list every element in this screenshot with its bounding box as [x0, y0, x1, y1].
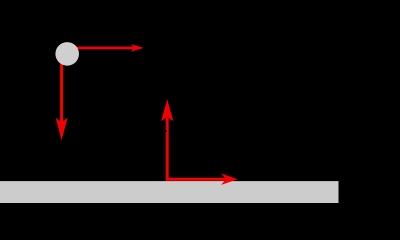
- ground reaction arrow (head): [221, 174, 238, 185]
- ball: [55, 42, 79, 66]
- ground reaction arrow (shaft): [166, 178, 227, 181]
- velocity arrow v (shaft): [67, 47, 136, 50]
- normal force arrow N (head): [161, 99, 173, 121]
- gravity arrow mg (shaft): [60, 54, 63, 123]
- normal force arrow N (shaft): [166, 117, 169, 180]
- velocity arrow v (head): [131, 44, 144, 51]
- label notch on N shaft: [165, 130, 167, 132]
- gravity arrow mg (head): [56, 118, 68, 141]
- ground: [0, 181, 339, 203]
